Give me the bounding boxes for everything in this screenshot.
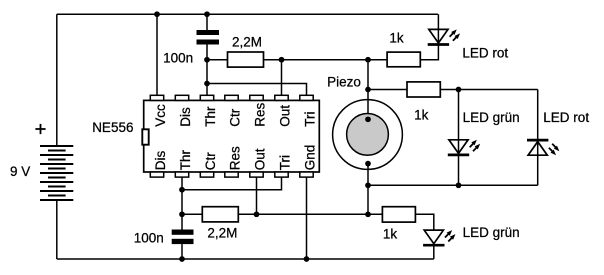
svg-text:LED grün: LED grün bbox=[463, 110, 520, 125]
wire top Thr lead lower bbox=[206, 45, 208, 96]
wire top rail bbox=[57, 13, 438, 15]
IC pin labels top row bbox=[153, 103, 317, 127]
wire top Thr lead upper bbox=[206, 14, 208, 30]
wire Gnd pin drop bbox=[306, 177, 308, 259]
svg-text:Out: Out bbox=[252, 148, 267, 170]
IC top pin pads bbox=[150, 95, 313, 100]
wire LED rot D3 branch bbox=[537, 90, 539, 186]
svg-text:Ctr: Ctr bbox=[227, 108, 242, 127]
svg-text:Out: Out bbox=[277, 105, 292, 127]
svg-text:Tri: Tri bbox=[302, 112, 317, 127]
wire 1k to LED rot cathode (top) bbox=[420, 46, 438, 60]
svg-text:Res: Res bbox=[227, 146, 242, 170]
wire piezo to bottom 1k node bbox=[367, 185, 369, 214]
resistor 2,2M (top) bbox=[228, 52, 264, 67]
wire Out pin drop (bottom) bbox=[256, 177, 258, 214]
LED rot D3 (reversed) bbox=[527, 140, 561, 157]
wire Thr to 2,2M (top) bbox=[207, 59, 228, 61]
IC NE556 body bbox=[144, 100, 320, 172]
svg-text:Gnd: Gnd bbox=[302, 145, 317, 171]
capacitor 100n (top) bbox=[197, 30, 220, 45]
wire LED gruen D2 anode drop bbox=[458, 90, 460, 186]
wire Thr to 2,2M (bottom) bbox=[182, 213, 202, 215]
wire Out node to 1k (bottom) bbox=[257, 213, 383, 215]
IC bottom pin pads bbox=[150, 172, 313, 177]
resistor 1k (top) bbox=[387, 52, 420, 67]
resistor 1k (bottom) bbox=[382, 207, 415, 222]
LED gruen D2 bbox=[448, 138, 482, 155]
wire piezo top branch bbox=[367, 60, 369, 119]
resistor 1k (middle) bbox=[407, 82, 440, 97]
svg-text:2,2M: 2,2M bbox=[232, 35, 262, 50]
svg-text:Res: Res bbox=[252, 103, 267, 127]
svg-text:LED rot: LED rot bbox=[543, 110, 589, 125]
wire Thr-Tri link (top) bbox=[207, 84, 307, 96]
svg-text:NE556: NE556 bbox=[92, 120, 133, 135]
wire bottom Thr drop bbox=[181, 177, 183, 229]
svg-text:Thr: Thr bbox=[203, 106, 218, 127]
wire Out node to 1k (top) bbox=[282, 59, 388, 61]
svg-text:Vcc: Vcc bbox=[153, 104, 168, 127]
wire Vcc pin drop bbox=[156, 14, 158, 95]
svg-text:9 V: 9 V bbox=[10, 164, 30, 179]
svg-text:1k: 1k bbox=[414, 107, 429, 122]
wire LED gruen cathode to rail bbox=[433, 246, 435, 259]
LED gruen D4 (bottom) bbox=[423, 229, 457, 246]
svg-text:Ctr: Ctr bbox=[203, 152, 218, 171]
svg-text:1k: 1k bbox=[383, 226, 398, 241]
wire piezo node to 1k (middle) bbox=[368, 89, 407, 91]
wire 2,2M to Out node (bottom) bbox=[238, 213, 256, 215]
wire piezo bottom lead bbox=[367, 164, 369, 186]
svg-text:1k: 1k bbox=[389, 30, 404, 45]
wire bottom cap to rail bbox=[181, 244, 183, 259]
svg-text:100n: 100n bbox=[134, 231, 164, 246]
svg-text:100n: 100n bbox=[163, 51, 193, 66]
resistor 2,2M (bottom) bbox=[202, 207, 238, 222]
battery 9V bbox=[40, 146, 73, 200]
wire bottom rail bbox=[57, 258, 434, 260]
wire Out pin drop (top) bbox=[281, 60, 283, 96]
wire lower LED return bbox=[368, 184, 538, 186]
wire 2,2M to Out node (top) bbox=[264, 59, 282, 61]
svg-text:Dis: Dis bbox=[153, 151, 168, 171]
svg-text:Piezo: Piezo bbox=[327, 75, 361, 90]
IC pin labels bottom row bbox=[153, 145, 317, 171]
plus sign bbox=[35, 124, 45, 134]
wire Thr-Tri link (bottom) bbox=[182, 177, 282, 190]
svg-text:2,2M: 2,2M bbox=[207, 226, 237, 241]
wire 1k to LED gruen (bottom) bbox=[415, 214, 433, 230]
wire 1k to LED pair (middle) bbox=[440, 89, 537, 91]
svg-text:LED rot: LED rot bbox=[462, 45, 508, 60]
IC pin1 notch bbox=[142, 129, 148, 144]
svg-text:Tri: Tri bbox=[277, 155, 292, 170]
wire battery positive lead bbox=[56, 14, 58, 146]
wire top rail to LED rot anode bbox=[437, 14, 439, 46]
svg-text:LED grün: LED grün bbox=[463, 225, 520, 240]
capacitor 100n (bottom) bbox=[172, 230, 194, 245]
wire battery negative lead bbox=[56, 200, 58, 259]
LED rot D1 (top right) bbox=[428, 28, 462, 45]
piezo transducer bbox=[333, 100, 403, 170]
svg-text:Thr: Thr bbox=[178, 150, 193, 171]
svg-text:Dis: Dis bbox=[178, 107, 193, 127]
